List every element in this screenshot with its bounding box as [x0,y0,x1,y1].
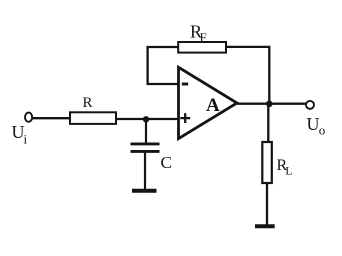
wire op-amp output [237,103,306,105]
op-amp U1 triangle [179,67,238,138]
svg-text:C: C [161,153,172,172]
svg-text:L: L [285,164,292,178]
wire inverting input feedback loop [148,47,179,84]
resistor R [70,112,116,124]
svg-text:R: R [83,95,93,111]
svg-text:U: U [307,114,320,134]
wire R to op-amp non-inverting input [116,118,179,120]
wire node to capacitor [145,119,147,144]
wire input terminal to R [32,117,70,119]
ground (capacitor) [132,189,157,193]
wire capacitor to ground [144,153,146,191]
svg-text:A: A [206,95,220,116]
svg-text:o: o [319,123,326,138]
output node junction [266,101,273,108]
input terminal Ui [25,113,32,122]
svg-text:i: i [24,132,28,147]
wire RF to output node [226,47,269,104]
plus sign (non-inverting input) [180,117,190,119]
feedback resistor RF [178,42,226,53]
capacitor C bottom plate [131,150,160,153]
wire RL to ground [266,183,268,226]
ground (RL) [255,224,275,228]
capacitor C top plate [131,142,160,145]
minus sign (inverting input) [182,83,188,86]
output terminal Uo [306,101,314,109]
svg-text:F: F [200,30,207,45]
load resistor RL [262,142,272,183]
wire node to RL [267,104,269,143]
node junction (R / C / op-amp input) [143,116,149,122]
